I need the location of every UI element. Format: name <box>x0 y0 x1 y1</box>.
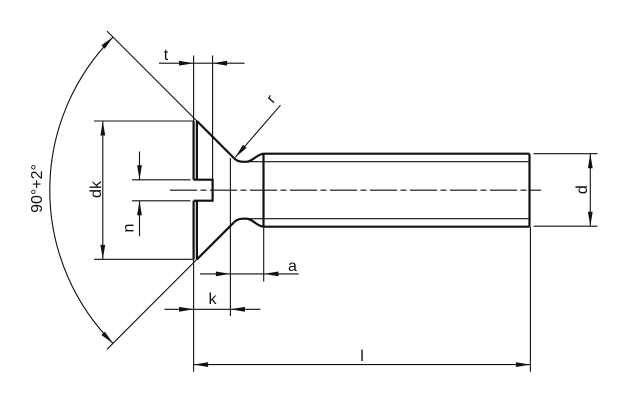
shank top major line <box>264 153 530 155</box>
arrow d top <box>588 154 593 169</box>
l dimension line <box>194 364 531 366</box>
a dimension extension line right <box>263 228 265 282</box>
dk dimension line <box>102 121 104 259</box>
svg-text:90°+2°: 90°+2° <box>29 164 46 213</box>
arrow arc top end <box>101 37 113 49</box>
thread root top line <box>246 161 528 163</box>
cone top surface <box>197 121 234 158</box>
slot outline <box>194 180 213 201</box>
head left face outer line <box>193 121 195 259</box>
a dimension line <box>200 273 299 275</box>
head left face inner line <box>196 121 198 259</box>
neck fillet bottom <box>234 219 264 227</box>
centerline (dash-dot axis) <box>170 189 541 191</box>
n dimension line <box>139 152 141 237</box>
svg-text:dk: dk <box>88 180 105 198</box>
t dimension line <box>159 62 245 64</box>
dk dimension extension lines <box>94 121 194 259</box>
arrow a right <box>264 272 279 277</box>
arrow l left <box>194 362 209 367</box>
arrow t left <box>179 61 194 66</box>
svg-text:l: l <box>360 348 364 365</box>
arrow d bottom <box>588 212 593 227</box>
shank end line <box>528 154 530 227</box>
arrow t right <box>213 61 228 66</box>
arrow n bottom <box>137 201 142 216</box>
arrow r leader <box>235 145 246 158</box>
l dimension extension lines <box>194 227 531 372</box>
svg-text:d: d <box>574 185 591 194</box>
arrow dk bottom <box>100 245 105 260</box>
arrow l right <box>516 362 531 367</box>
d dimension extension lines <box>534 154 598 227</box>
shank bottom major line <box>264 226 530 228</box>
thread start line <box>262 154 264 227</box>
arrow arc bottom end <box>101 332 113 344</box>
thread root bottom line <box>246 218 528 220</box>
d dimension line <box>589 154 591 227</box>
neck fillet top <box>234 154 264 162</box>
svg-text:a: a <box>288 258 297 275</box>
arrow dk top <box>100 121 105 136</box>
k dimension line <box>165 308 261 310</box>
angle extension line bottom <box>107 259 197 349</box>
arrow n top <box>137 165 142 180</box>
arrow a left <box>216 272 231 277</box>
n dimension extension lines <box>132 180 191 201</box>
cone bottom surface <box>197 223 234 260</box>
angle arc <box>50 37 114 344</box>
angle extension line top <box>107 31 197 121</box>
t dimension extension lines <box>194 56 213 180</box>
k/a shared extension line <box>229 158 231 316</box>
svg-text:t: t <box>164 47 169 64</box>
r leader line <box>235 105 280 157</box>
arrow k left <box>179 307 194 312</box>
arrow k right <box>230 307 245 312</box>
svg-text:k: k <box>209 291 218 308</box>
svg-text:n: n <box>121 224 138 233</box>
